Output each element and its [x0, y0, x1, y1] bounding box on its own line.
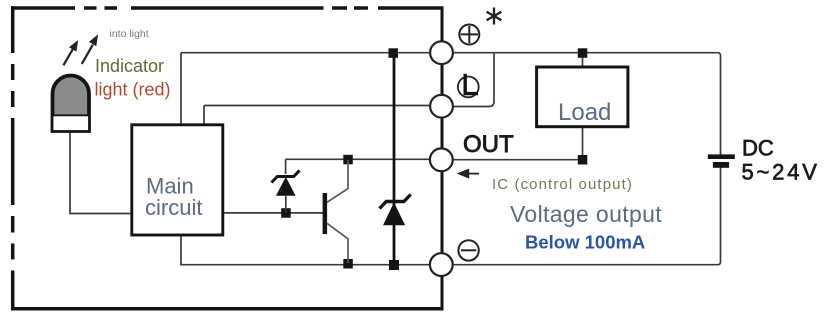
wire OUT left (inside sensor) — [286, 158, 442, 160]
svg-text:into light: into light — [110, 28, 149, 40]
minus-in-circle symbol — [458, 240, 478, 260]
svg-text:Below 100mA: Below 100mA — [525, 231, 645, 252]
battery BT1 long plate — [708, 154, 735, 159]
wire vertical into Main circuit top (from + wire) — [180, 53, 182, 125]
junction on OUT wire at collector — [343, 155, 353, 165]
svg-text:Indicator: Indicator — [95, 56, 164, 76]
wire Load bottom stub — [582, 127, 584, 160]
junction on OUT wire at Load bottom stub — [578, 155, 588, 165]
indicator LED gray dome — [54, 77, 89, 116]
enclosure border bottom — [11, 307, 444, 311]
terminal line (enclosure right edge) — [441, 8, 444, 309]
wire OUT right — [442, 159, 583, 161]
wire vertical into Main circuit top (from L wire) — [203, 106, 205, 126]
enclosure dashed border left — [11, 6, 15, 310]
junction on top wire at Load stub — [578, 48, 588, 58]
junction on bottom wire at emitter — [343, 259, 353, 269]
Load box — [537, 67, 628, 127]
wire battery bottom to minus terminal — [442, 168, 721, 265]
terminal minus — [430, 253, 453, 276]
zener diode ZD2 anode triangle — [384, 204, 405, 225]
svg-text:Voltage output: Voltage output — [510, 201, 662, 227]
terminal L — [430, 95, 453, 118]
terminal + — [430, 41, 453, 64]
junction on base wire at ZD1 — [281, 208, 291, 218]
svg-text:IC (control output): IC (control output) — [492, 176, 633, 193]
svg-text:circuit: circuit — [145, 195, 202, 220]
svg-text:OUT: OUT — [463, 131, 514, 158]
Main circuit box — [132, 125, 223, 235]
asterisk — [487, 8, 502, 25]
transistor Q1 emitter — [327, 223, 348, 263]
zener diode ZD2 cathode bar — [380, 195, 411, 209]
junction on top wire at ZD2 — [389, 48, 399, 58]
wire Load top stub — [582, 53, 584, 67]
svg-text:5~24V: 5~24V — [742, 160, 820, 185]
terminal OUT — [430, 148, 453, 171]
svg-text:DC: DC — [742, 136, 774, 161]
wire L-terminal left — [204, 105, 441, 107]
svg-text:Load: Load — [558, 99, 611, 126]
wire top-right (+ terminal to battery) — [442, 53, 721, 155]
arrow into light 2 — [82, 36, 98, 64]
battery BT1 short plate — [713, 162, 729, 168]
wire indicator LED lead — [70, 132, 133, 214]
zener diode ZD1 cathode bar — [272, 171, 300, 183]
wire L-terminal jumper to + — [442, 53, 494, 107]
wire base (Main circuit to transistor) — [222, 212, 323, 214]
svg-text:light (red): light (red) — [95, 80, 171, 100]
wire top-left (+ supply inside sensor) — [181, 52, 441, 54]
transistor Q1 collector — [327, 160, 348, 202]
zener diode ZD2 vertical lead (thick) — [393, 53, 396, 265]
transistor Q1 base bar — [323, 193, 328, 234]
zener diode ZD1 (lead) — [285, 159, 287, 174]
zener diode ZD1 anode triangle — [277, 178, 295, 195]
arrow pointing at OUT terminal — [467, 173, 479, 175]
circled L symbol — [458, 77, 479, 98]
zener diode ZD1 lower lead — [285, 195, 287, 213]
enclosure dashed border top — [11, 6, 444, 10]
indicator LED body outline — [52, 75, 90, 132]
plus-in-circle symbol — [459, 25, 479, 45]
junction on bottom wire at ZD2 — [389, 260, 399, 270]
arrow into light 1 — [63, 41, 77, 65]
wire bottom-left (0V inside sensor) — [181, 236, 441, 265]
